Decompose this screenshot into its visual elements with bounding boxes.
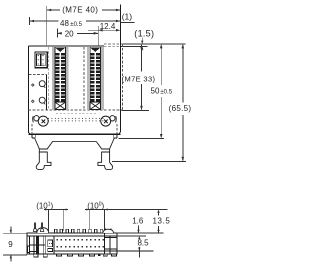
screw right: [101, 116, 111, 126]
M7E33 dashed outline right edge: [122, 44, 124, 110]
extension line left of (M7E 40) dim: [46, 6, 48, 45]
strip 1 keying box: [55, 102, 65, 109]
svg-text:(1): (1): [122, 12, 133, 22]
pin strip 2: [87, 47, 104, 110]
left connector feet: [34, 254, 38, 257]
dimension 50±0.5 vertical: [160, 45, 162, 138]
dashed line across body (M7E33 bottom): [29, 109, 123, 111]
front view left leg: [39, 149, 47, 152]
front view left slant: [35, 138, 40, 149]
extension line M7E33 top (dashed over body, solid right): [104, 43, 123, 45]
svg-text:±0.5: ±0.5: [160, 90, 172, 96]
front view top line: [29, 133, 121, 135]
svg-text:(M7E 33): (M7E 33): [122, 75, 156, 84]
diamond mark 1: [32, 84, 35, 87]
extension line body right edge top: [119, 5, 121, 47]
front view mid bottom: [53, 140, 96, 142]
extension line 50 bottom: [118, 138, 164, 140]
top view body outline: [29, 46, 121, 134]
dimension (M7E 33) vertical: [141, 45, 143, 110]
svg-text:(100): (100): [87, 201, 104, 210]
svg-text:8.5: 8.5: [137, 238, 149, 247]
pin hole grid rows: [57, 239, 105, 248]
dimension 20: [56, 29, 58, 38]
svg-text:48: 48: [60, 19, 69, 28]
svg-text:(1.5): (1.5): [134, 29, 154, 39]
dashed vertical between strips: [83, 47, 85, 110]
svg-text:(65.5): (65.5): [169, 104, 192, 113]
svg-text:50: 50: [151, 87, 160, 96]
bottom view body: [27, 233, 117, 254]
svg-text:(101): (101): [36, 201, 53, 210]
dimension 48±0.5: [29, 17, 31, 25]
svg-text:±0.5: ±0.5: [70, 22, 82, 28]
svg-text:1.6: 1.6: [132, 216, 144, 225]
connector box top-left: [35, 52, 47, 68]
svg-text:(M7E 40): (M7E 40): [62, 5, 98, 14]
small pin row on top of body: [54, 229, 102, 233]
extension line body top right: [121, 45, 148, 47]
front view left tab: [32, 134, 35, 138]
strip 1 contact rungs: [55, 53, 65, 102]
svg-text:20: 20: [65, 29, 74, 38]
strip 2 contact rungs: [90, 53, 100, 102]
front view right slant: [110, 138, 115, 149]
dimension (M7E 40): [47, 9, 121, 11]
dimension 13.5: [158, 212, 160, 234]
hole circle 2: [39, 97, 45, 103]
hole circle 1: [39, 81, 45, 87]
dotted terminal row: [48, 118, 103, 122]
strip 2 keying box: [90, 102, 100, 109]
tall pin 2: [41, 223, 43, 230]
right dome: [103, 229, 114, 233]
extension line 65.5 bottom: [112, 160, 186, 162]
short dashed line below: [56, 112, 98, 114]
pin strip 1: [52, 47, 69, 110]
svg-text:9: 9: [8, 240, 13, 249]
diamond mark 2: [32, 100, 35, 103]
dimension 8.5: [138, 236, 140, 239]
screw left: [38, 116, 48, 126]
inner compartment solid edge: [46, 74, 48, 110]
dashed vertical line x=48.7: [48, 47, 50, 110]
extension line M7E33 bottom: [122, 109, 150, 111]
svg-text:13.5: 13.5: [153, 216, 171, 225]
extension lines right of bottom view: [117, 232, 164, 234]
bottom view right cap: [105, 233, 111, 254]
dashed rect top edge: [29, 73, 47, 75]
tall pin 1: [34, 223, 36, 230]
dimension (65.5) vertical: [182, 45, 184, 161]
front view right tab: [114, 134, 117, 138]
dome on top of connector: [37, 228, 49, 233]
dimension 9 left: [3, 233, 29, 255]
front view right leg: [102, 149, 110, 152]
left connector box verticals: [30, 236, 54, 254]
